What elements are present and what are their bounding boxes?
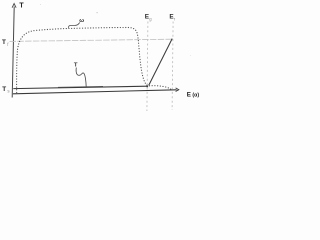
svg-text:T: T: [2, 86, 6, 93]
Er vertical dashed guide line: [172, 22, 173, 111]
doubled scan stroke above T line: [58, 85, 103, 88]
svg-text:T: T: [19, 2, 24, 9]
svg-text:(α): (α): [192, 92, 199, 98]
x-axis arrowhead: [176, 88, 179, 92]
dotted dynamic-heating curve: [17, 28, 172, 93]
y-axis (temperature axis): [12, 7, 14, 98]
solid isothermal T line (upper): [13, 86, 147, 88]
svg-text:ω: ω: [79, 18, 84, 24]
T leader squiggle: [76, 68, 86, 88]
Tf level gray dashed line: [10, 39, 173, 41]
Eg vertical dashed guide line: [147, 22, 148, 112]
x-axis line: [13, 90, 177, 94]
svg-text:T: T: [2, 39, 6, 46]
faint scan speckles: [97, 12, 98, 13]
svg-text:E: E: [187, 91, 191, 98]
omega leader squiggle: [68, 23, 79, 28]
y-axis arrowhead: [12, 4, 16, 8]
solid rising diagonal line (to Er): [149, 39, 173, 86]
junction blob at Eg: [146, 85, 148, 87]
